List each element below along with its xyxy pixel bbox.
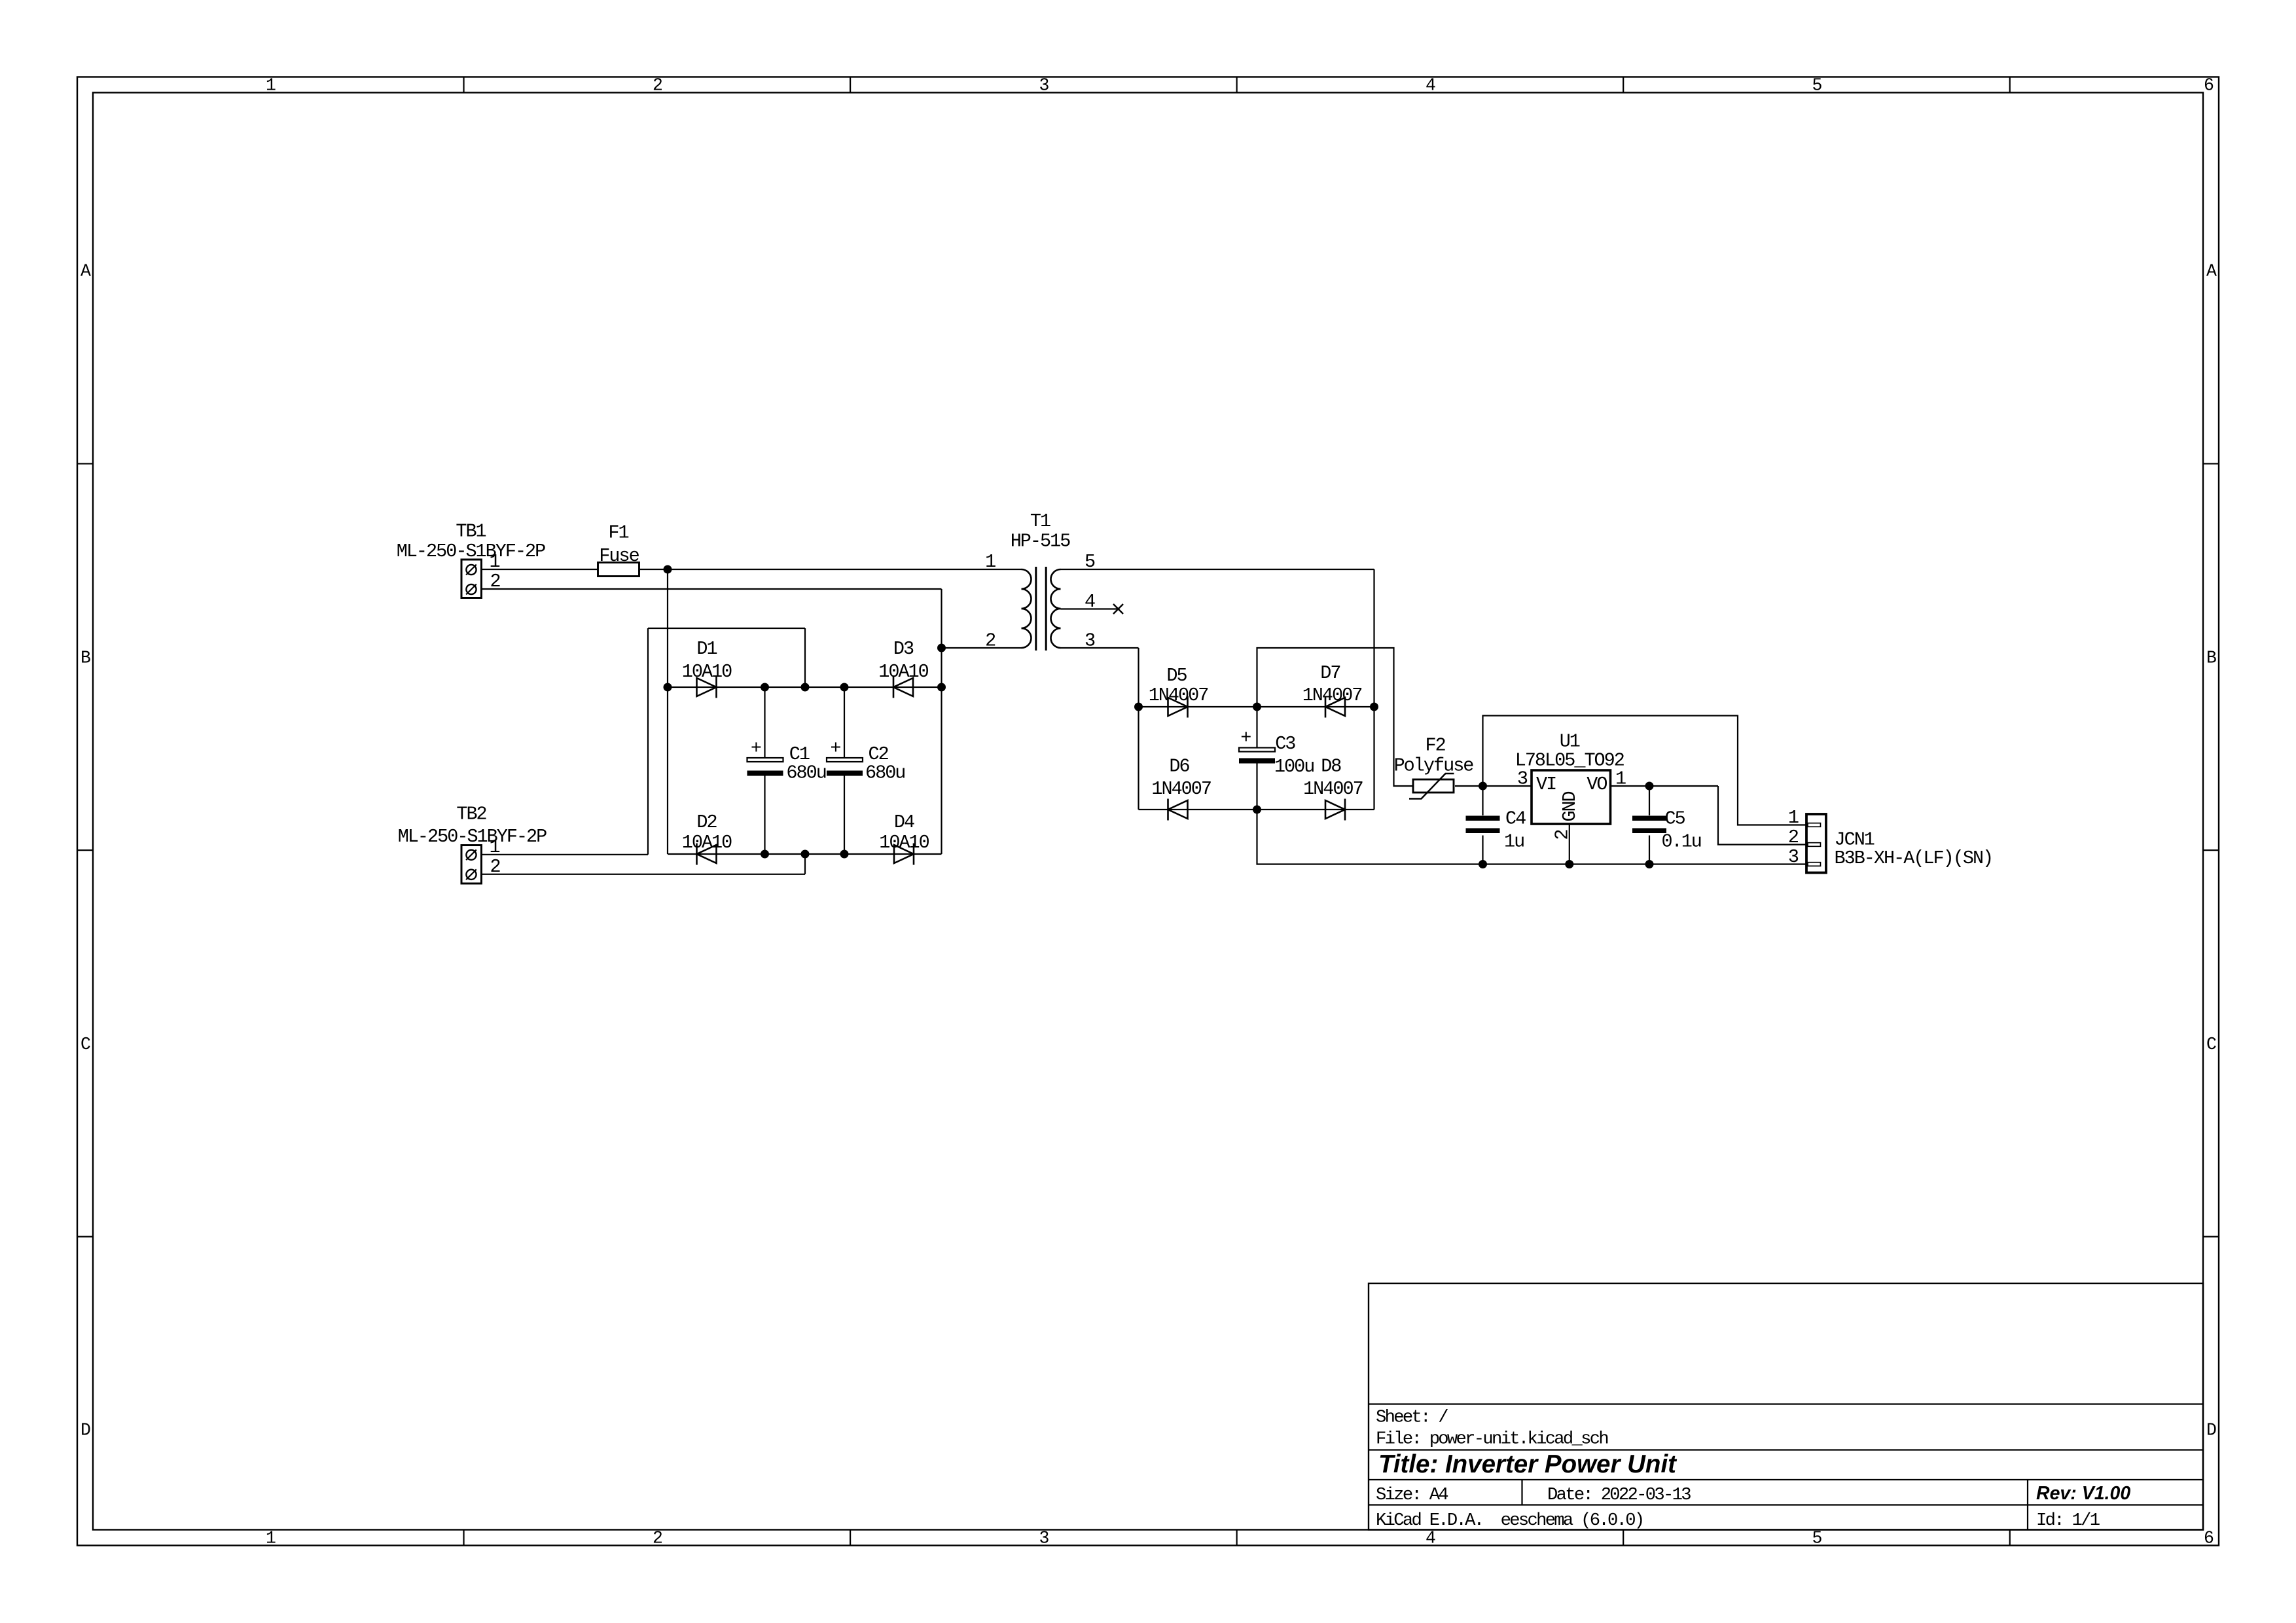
svg-text:6: 6 <box>2204 1529 2214 1548</box>
svg-text:GND: GND <box>1559 791 1581 821</box>
svg-text:1: 1 <box>489 551 499 573</box>
svg-text:A: A <box>2206 262 2217 281</box>
svg-text:1: 1 <box>1615 768 1626 790</box>
svg-text:4: 4 <box>1426 1529 1435 1548</box>
svg-text:Date: 2022-03-13: Date: 2022-03-13 <box>1547 1485 1691 1505</box>
svg-text:10A10: 10A10 <box>682 661 732 683</box>
svg-text:5: 5 <box>1812 1529 1822 1548</box>
svg-text:D: D <box>2206 1421 2216 1440</box>
svg-text:5: 5 <box>1085 551 1095 573</box>
svg-text:KiCad E.D.A. eeschema (6.0.0): KiCad E.D.A. eeschema (6.0.0) <box>1376 1510 1643 1531</box>
svg-text:D1: D1 <box>696 638 717 660</box>
svg-text:2: 2 <box>653 1529 662 1548</box>
svg-text:Size: A4: Size: A4 <box>1376 1485 1448 1505</box>
svg-text:L78L05_TO92: L78L05_TO92 <box>1515 750 1624 772</box>
svg-text:1: 1 <box>1788 807 1799 829</box>
svg-text:10A10: 10A10 <box>879 832 929 853</box>
svg-text:VO: VO <box>1587 774 1607 795</box>
svg-text:0.1u: 0.1u <box>1662 831 1701 853</box>
svg-text:2: 2 <box>490 571 500 592</box>
svg-text:1N4007: 1N4007 <box>1302 685 1362 706</box>
svg-text:ML-250-S1BYF-2P: ML-250-S1BYF-2P <box>397 541 545 562</box>
svg-text:1N4007: 1N4007 <box>1149 685 1208 706</box>
svg-text:1: 1 <box>266 1529 276 1548</box>
svg-text:D4: D4 <box>894 811 914 833</box>
svg-text:3: 3 <box>1517 768 1528 790</box>
svg-text:3: 3 <box>1039 1529 1049 1548</box>
svg-text:File: power-unit.kicad_sch: File: power-unit.kicad_sch <box>1376 1429 1607 1450</box>
svg-text:B3B-XH-A(LF)(SN): B3B-XH-A(LF)(SN) <box>1835 847 1993 869</box>
svg-text:F2: F2 <box>1425 735 1445 757</box>
svg-text:C5: C5 <box>1665 808 1685 830</box>
svg-text:4: 4 <box>1426 76 1435 96</box>
svg-text:TB2: TB2 <box>456 804 486 825</box>
svg-text:1: 1 <box>985 551 996 573</box>
svg-text:+: + <box>751 738 761 759</box>
svg-text:D2: D2 <box>696 811 717 833</box>
svg-text:B: B <box>81 649 90 668</box>
svg-text:C: C <box>81 1035 90 1054</box>
svg-text:2: 2 <box>490 856 500 878</box>
svg-text:C: C <box>2206 1035 2216 1054</box>
svg-text:D3: D3 <box>893 638 914 660</box>
svg-text:1: 1 <box>489 836 499 858</box>
svg-text:10A10: 10A10 <box>878 661 928 683</box>
svg-text:A: A <box>81 262 91 281</box>
svg-text:D6: D6 <box>1169 756 1189 777</box>
svg-text:Sheet: /: Sheet: / <box>1376 1408 1448 1428</box>
svg-text:3: 3 <box>1085 630 1095 652</box>
svg-text:VI: VI <box>1536 774 1556 795</box>
svg-text:HP-515: HP-515 <box>1011 531 1071 552</box>
svg-text:5: 5 <box>1812 76 1822 96</box>
svg-text:TB1: TB1 <box>456 521 486 543</box>
svg-text:Polyfuse: Polyfuse <box>1394 755 1474 777</box>
svg-text:+: + <box>1240 727 1251 749</box>
svg-text:1: 1 <box>266 76 276 96</box>
svg-text:Id: 1/1: Id: 1/1 <box>2036 1510 2100 1531</box>
svg-text:+: + <box>830 738 840 759</box>
svg-text:D7: D7 <box>1320 662 1340 684</box>
svg-text:2: 2 <box>1788 827 1799 848</box>
svg-text:4: 4 <box>1085 591 1095 613</box>
svg-text:D8: D8 <box>1321 756 1341 777</box>
svg-text:100u: 100u <box>1274 756 1314 777</box>
svg-text:D: D <box>81 1421 90 1440</box>
svg-text:Fuse: Fuse <box>599 545 639 567</box>
svg-text:D5: D5 <box>1166 665 1187 687</box>
svg-text:2: 2 <box>653 76 662 96</box>
svg-text:6: 6 <box>2204 76 2214 96</box>
svg-text:680u: 680u <box>786 762 825 784</box>
svg-text:ML-250-S1BYF-2P: ML-250-S1BYF-2P <box>398 826 547 847</box>
svg-text:10A10: 10A10 <box>682 832 732 853</box>
svg-text:2: 2 <box>985 630 996 652</box>
svg-text:Rev: V1.00: Rev: V1.00 <box>2036 1483 2130 1504</box>
svg-text:B: B <box>2206 649 2216 668</box>
svg-text:F1: F1 <box>608 522 628 544</box>
svg-text:1u: 1u <box>1504 831 1524 853</box>
svg-text:C4: C4 <box>1505 808 1526 830</box>
svg-text:3: 3 <box>1788 846 1799 868</box>
svg-text:C3: C3 <box>1275 733 1295 755</box>
svg-text:2: 2 <box>1552 830 1573 840</box>
svg-text:680u: 680u <box>865 762 905 784</box>
svg-text:Title: Inverter Power Unit: Title: Inverter Power Unit <box>1378 1450 1677 1478</box>
svg-text:T1: T1 <box>1030 510 1050 532</box>
svg-text:1N4007: 1N4007 <box>1303 778 1363 800</box>
svg-text:3: 3 <box>1039 76 1049 96</box>
svg-text:1N4007: 1N4007 <box>1151 778 1211 800</box>
